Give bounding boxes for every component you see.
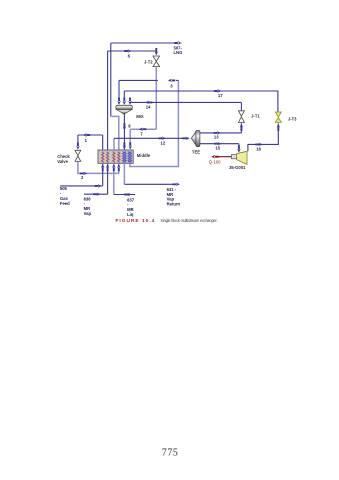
arrow Q-100 bbox=[211, 155, 218, 158]
coil hot 4 bbox=[118, 152, 121, 163]
svg-text:FIGURE 10.4: FIGURE 10.4 bbox=[116, 218, 156, 224]
arrow 2 into exchanger bbox=[117, 164, 120, 171]
wire stream 17 line bbox=[124, 91, 278, 112]
check valve bbox=[75, 150, 81, 161]
wire stream 631 return bbox=[123, 163, 125, 184]
svg-text:TEE: TEE bbox=[192, 149, 200, 154]
coil hot 3 bbox=[113, 152, 116, 163]
svg-text:Liq: Liq bbox=[127, 212, 134, 217]
arrow 12 mid bbox=[159, 137, 166, 140]
valve J-T2 bbox=[153, 56, 160, 67]
coil hot 2 bbox=[106, 152, 109, 163]
wire stream 507 top line bbox=[111, 43, 177, 116]
coil hot 1 bbox=[101, 152, 104, 163]
wire stream 12 bbox=[113, 138, 115, 150]
arrow 6 bbox=[124, 49, 131, 52]
valve J-T1 bbox=[238, 111, 244, 123]
svg-text:Return: Return bbox=[167, 202, 181, 207]
coil cold 2 bbox=[128, 152, 132, 163]
wire stream 2 bbox=[78, 162, 119, 174]
arrow 13 into J-T1 bbox=[240, 124, 243, 131]
arrow 15 into expander bbox=[237, 145, 240, 152]
svg-text:Vap: Vap bbox=[84, 211, 92, 216]
wire stream 3 loop from exchanger bottom bbox=[130, 80, 179, 166]
wire stream 636 feed bbox=[84, 164, 108, 195]
splitter TEE bbox=[191, 130, 200, 146]
wires through exchanger bbox=[103, 150, 130, 163]
svg-text:14: 14 bbox=[146, 105, 151, 110]
svg-text:Q-100: Q-100 bbox=[209, 159, 221, 164]
arrow 16 into J-T3 bbox=[277, 124, 280, 131]
arrow 14 bbox=[145, 101, 152, 104]
svg-text:15: 15 bbox=[215, 146, 220, 151]
svg-text:13: 13 bbox=[214, 135, 219, 140]
svg-text:J-T2: J-T2 bbox=[144, 60, 153, 65]
mixer MIX bbox=[116, 105, 132, 115]
svg-text:J-T3: J-T3 bbox=[288, 117, 297, 122]
wire stream 1 bbox=[78, 135, 103, 150]
wire stream 6 line bbox=[108, 51, 157, 150]
arrow 9 bbox=[123, 123, 126, 130]
caption text bbox=[161, 217, 218, 223]
heat exchanger Middle bbox=[98, 150, 133, 163]
wire stream 14 line bbox=[130, 102, 241, 110]
arrow 7 bbox=[139, 128, 146, 131]
coil cold 1 bbox=[123, 152, 127, 163]
arrow 9 into exchanger bbox=[123, 142, 126, 149]
arrow 507 bbox=[174, 41, 181, 44]
svg-text:35-G001: 35-G001 bbox=[229, 165, 246, 170]
svg-text:MIX: MIX bbox=[136, 114, 144, 119]
svg-text:J-T1: J-T1 bbox=[251, 114, 260, 119]
svg-text:Valve: Valve bbox=[57, 159, 68, 164]
wire stream 15 bbox=[200, 144, 239, 151]
arrow 7 into exchanger bbox=[129, 142, 132, 149]
arrow 13 bbox=[214, 131, 221, 134]
arrow 3 into MIX bbox=[117, 98, 120, 105]
wire stream 505 feed bbox=[60, 164, 103, 186]
arrow 637 bbox=[124, 193, 131, 196]
svg-text:17: 17 bbox=[218, 93, 223, 98]
arrow 3 bbox=[168, 79, 175, 82]
wire stream 637 feed bbox=[113, 164, 115, 195]
svg-text:Middle: Middle bbox=[137, 153, 151, 158]
arrow 1 bbox=[83, 133, 90, 136]
wire stream 13 bbox=[200, 123, 242, 133]
energy stream Q-100 bbox=[215, 156, 231, 158]
svg-text:12: 12 bbox=[161, 141, 166, 146]
svg-text:16: 16 bbox=[256, 147, 261, 152]
arrow 636 bbox=[93, 193, 100, 196]
wire stream 3 line bbox=[119, 80, 178, 101]
arrow 505 into exchanger bbox=[101, 164, 104, 171]
node jog 507 passthrough bbox=[111, 116, 119, 150]
arrow into J-T2 bbox=[155, 48, 158, 55]
arrow 637 into exchanger bbox=[112, 164, 115, 171]
valve J-T3 bbox=[275, 112, 281, 122]
arrow 505 bbox=[95, 184, 102, 187]
svg-text:LNG: LNG bbox=[174, 50, 183, 55]
arrow 631 bbox=[173, 183, 180, 186]
arrow 15 bbox=[214, 142, 221, 145]
arrow 2 bbox=[80, 172, 87, 175]
arrow 1 into check valve bbox=[76, 142, 79, 149]
arrow 636 into exchanger bbox=[106, 164, 109, 171]
arrow 17 into MIX bbox=[123, 98, 126, 105]
arrow 14 into MIX bbox=[128, 98, 131, 105]
expander 35-G001 bbox=[231, 151, 247, 164]
svg-text:Feed: Feed bbox=[60, 201, 70, 206]
svg-text:Single block multistream excha: Single block multistream exchanger. bbox=[161, 217, 218, 223]
arrow 12 into TEE bbox=[182, 137, 189, 140]
wire stream 9 bbox=[123, 115, 125, 151]
svg-text:775: 775 bbox=[162, 447, 179, 458]
wire J-T2 to stream 7 bbox=[130, 67, 156, 146]
arrow 17 bbox=[214, 89, 221, 92]
wire stream 16 bbox=[248, 123, 278, 151]
arrow 16 bbox=[255, 143, 262, 146]
